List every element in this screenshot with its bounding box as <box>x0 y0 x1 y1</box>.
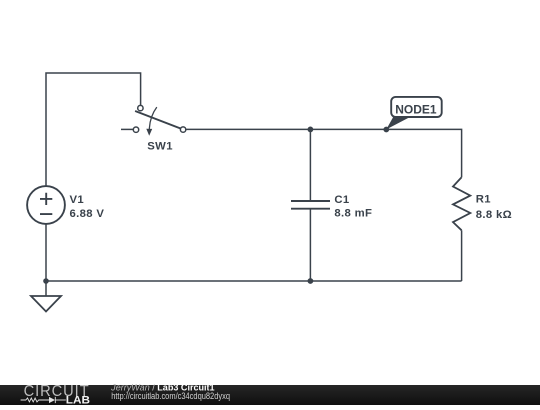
svg-text:R1: R1 <box>476 193 491 205</box>
svg-text:C1: C1 <box>334 194 349 206</box>
svg-text:LAB: LAB <box>66 394 90 405</box>
svg-text:SW1: SW1 <box>147 140 173 152</box>
svg-text:V1: V1 <box>70 194 85 206</box>
svg-text:6.88 V: 6.88 V <box>70 208 105 220</box>
svg-text:NODE1: NODE1 <box>395 103 437 117</box>
svg-text:8.8 mF: 8.8 mF <box>334 207 372 219</box>
svg-text:8.8 kΩ: 8.8 kΩ <box>476 209 512 221</box>
svg-text:http://circuitlab.com/c34cdqu8: http://circuitlab.com/c34cdqu82dyxq <box>111 391 230 401</box>
